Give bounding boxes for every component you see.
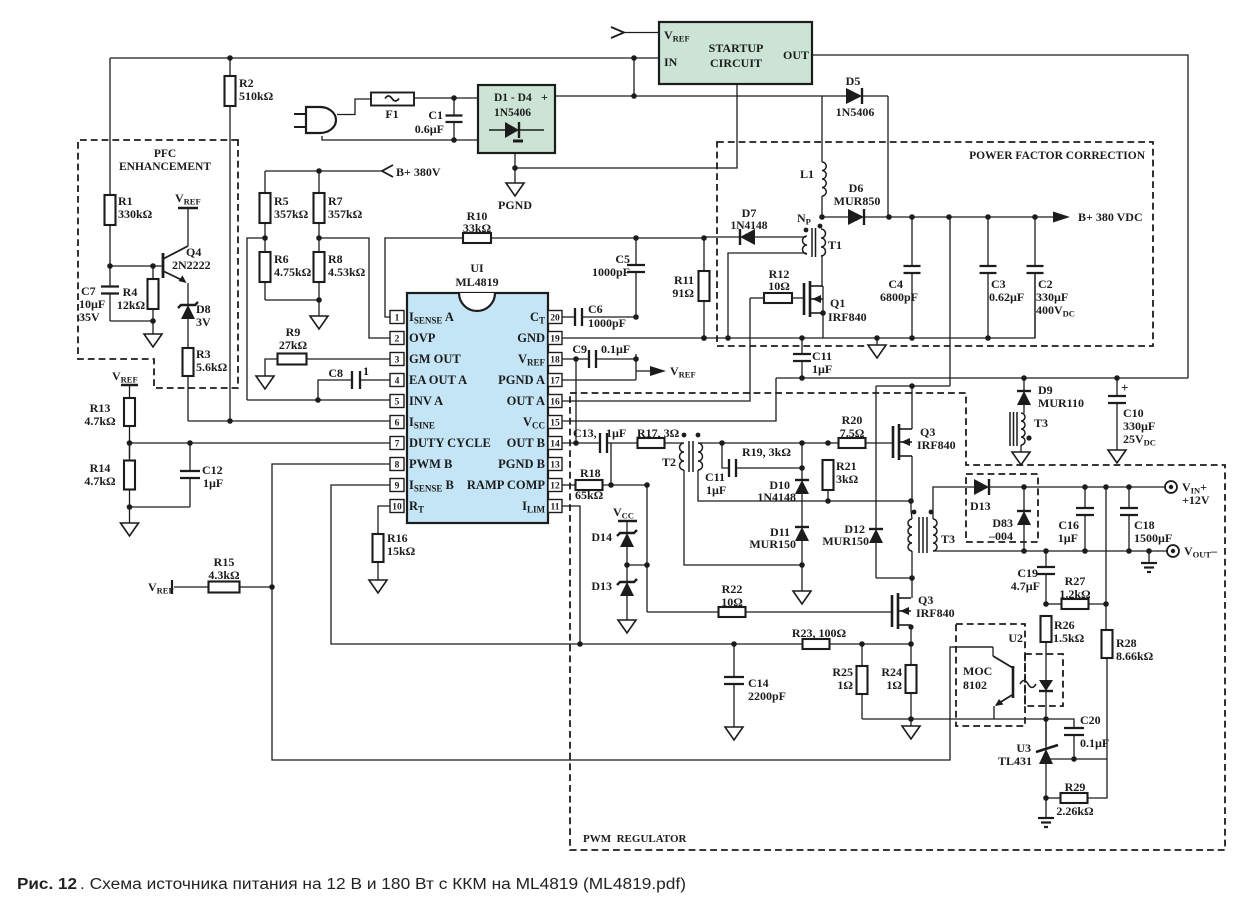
wire T1 primary return: [728, 253, 806, 338]
svg-text:1µF: 1µF: [606, 426, 626, 440]
resistor R22: [647, 582, 892, 617]
resistor R28: [1102, 630, 1154, 759]
svg-text:5.6kΩ: 5.6kΩ: [196, 360, 228, 374]
svg-text:PGND: PGND: [498, 198, 532, 212]
svg-text:R29: R29: [1065, 780, 1086, 794]
svg-text:TL431: TL431: [998, 754, 1032, 768]
clamp rail to Q3 drain: [876, 217, 950, 425]
svg-text:MOC: MOC: [963, 664, 992, 678]
svg-text:B+ 380 VDC: B+ 380 VDC: [1078, 210, 1143, 224]
diode D11: [749, 525, 809, 591]
svg-text:330kΩ: 330kΩ: [118, 207, 153, 221]
resistor R7: [314, 171, 363, 252]
svg-text:GND: GND: [517, 331, 545, 345]
svg-text:10µF: 10µF: [79, 297, 105, 311]
svg-text:OUT B: OUT B: [507, 436, 545, 450]
svg-text:POWER FACTOR CORRECTION: POWER FACTOR CORRECTION: [969, 150, 1146, 162]
svg-text:2N2222: 2N2222: [172, 258, 211, 272]
svg-text:R23, 100Ω: R23, 100Ω: [792, 626, 847, 640]
svg-text:PGND B: PGND B: [498, 457, 545, 471]
ground under R14: [121, 507, 191, 536]
diode D83-004: [988, 487, 1031, 554]
svg-text:R24: R24: [881, 665, 902, 679]
svg-text:PWM B: PWM B: [409, 457, 452, 471]
transformer T1: [797, 211, 842, 257]
svg-text:–004: –004: [988, 529, 1013, 543]
svg-text:10: 10: [392, 503, 402, 513]
capacitor C13: [562, 426, 638, 453]
wire PWM B pin8 long loop: [269, 464, 993, 760]
svg-text:C2: C2: [1038, 277, 1053, 291]
svg-text:1Ω: 1Ω: [886, 678, 902, 692]
resistor R27: [1046, 574, 1109, 609]
svg-text:1: 1: [395, 314, 400, 324]
svg-text:D14: D14: [591, 530, 612, 544]
transformer T3 main: [908, 501, 955, 581]
svg-text:1µF: 1µF: [1058, 531, 1078, 545]
transistor Q4 2N2222: [163, 209, 211, 305]
svg-text:RAMP COMP: RAMP COMP: [467, 478, 545, 492]
ground under C10: [1108, 450, 1126, 463]
svg-text:Q1: Q1: [830, 296, 845, 310]
capacitor C9 on VREF: [562, 342, 639, 368]
resistor R11: [672, 238, 709, 341]
svg-text:1000pF: 1000pF: [588, 316, 626, 330]
svg-text:Q4: Q4: [186, 245, 201, 259]
wire ISENSE B pin9 rail: [331, 485, 914, 647]
svg-text:IRF840: IRF840: [916, 606, 955, 620]
GND rail pin19: [562, 273, 1035, 341]
wire plug to fuse: [337, 99, 371, 115]
svg-text:R25: R25: [832, 665, 853, 679]
svg-text:C9: C9: [572, 342, 587, 356]
ground PFC stage: [868, 338, 886, 358]
svg-text:14: 14: [550, 440, 560, 450]
capacitor C18: [1120, 487, 1172, 551]
wire top rail to startup IN: [110, 55, 659, 61]
capacitor C6 on CT: [562, 302, 636, 330]
svg-text:R4: R4: [123, 285, 138, 299]
wire source return to opto: [862, 716, 1049, 722]
resistor R20: [839, 413, 894, 448]
svg-text:C6: C6: [588, 302, 603, 316]
svg-text:PFC: PFC: [154, 148, 176, 160]
svg-text:R17, 3Ω: R17, 3Ω: [637, 426, 680, 440]
transistor Q1: [804, 255, 867, 338]
optocoupler U2 internals: [952, 647, 1053, 719]
capacitor C11 pwm: [705, 443, 805, 497]
ground under T3 aux: [1012, 452, 1030, 465]
resistor R16: [373, 506, 416, 580]
svg-text:10Ω: 10Ω: [768, 279, 790, 293]
svg-text:C11: C11: [812, 349, 832, 363]
svg-text:1N4148: 1N4148: [730, 220, 767, 232]
svg-text:R13: R13: [90, 401, 111, 415]
svg-text:C11: C11: [705, 470, 725, 484]
svg-text:R26: R26: [1054, 618, 1075, 632]
resistor R4: [110, 263, 163, 324]
capacitor C10: [1108, 378, 1156, 450]
svg-text:27kΩ: 27kΩ: [279, 338, 308, 352]
PWM REGULATOR dashed box: [570, 393, 1225, 850]
svg-text:R22: R22: [722, 582, 743, 596]
svg-text:4.53kΩ: 4.53kΩ: [328, 265, 366, 279]
svg-text:T2: T2: [662, 455, 676, 469]
svg-text:D1 - D4: D1 - D4: [494, 92, 532, 104]
svg-text:ENHANCEMENT: ENHANCEMENT: [119, 161, 211, 173]
inductor L1: [800, 96, 826, 217]
resistor R21: [823, 459, 859, 501]
resistor R5: [260, 171, 309, 252]
svg-text:L1: L1: [800, 167, 814, 181]
svg-text:R19, 3kΩ: R19, 3kΩ: [742, 445, 791, 459]
svg-text:IN: IN: [664, 55, 678, 69]
capacitor C4: [880, 217, 921, 338]
caption: [17, 876, 686, 893]
wire IN-rail drop to plus line: [633, 58, 635, 96]
svg-text:. Схема источника питания на 1: . Схема источника питания на 12 В и 180 …: [80, 876, 686, 893]
wire R18 to OUT B: [610, 443, 612, 485]
AC plug symbol: [294, 107, 336, 133]
svg-text:4.7kΩ: 4.7kΩ: [84, 474, 116, 488]
diode D5: [836, 74, 888, 217]
svg-text:D9: D9: [1038, 383, 1053, 397]
POWER FACTOR CORRECTION dashed box: [717, 142, 1153, 346]
svg-text:D83: D83: [992, 516, 1013, 530]
VREF input arrow: [611, 27, 659, 38]
svg-text:R14: R14: [90, 461, 111, 475]
capacitor C7: [79, 263, 153, 324]
svg-text:R8: R8: [328, 252, 343, 266]
VREF output arrow: [562, 354, 696, 380]
svg-text:U2: U2: [1008, 631, 1023, 645]
resistor R12: [750, 267, 804, 303]
svg-text:OVP: OVP: [409, 331, 436, 345]
capacitor C11 pfc: [793, 338, 832, 378]
svg-text:U3: U3: [1016, 741, 1031, 755]
startup circuit U5 box: [659, 22, 812, 84]
svg-text:Q3: Q3: [920, 425, 935, 439]
ground under R24: [902, 719, 920, 739]
svg-text:C3: C3: [991, 277, 1006, 291]
svg-text:R15: R15: [214, 555, 235, 569]
svg-text:C10: C10: [1123, 406, 1144, 420]
terminal VIN+: [1165, 480, 1210, 507]
svg-text:8: 8: [395, 461, 400, 471]
svg-text:4.7µF: 4.7µF: [1011, 579, 1040, 593]
svg-text:R7: R7: [328, 194, 343, 208]
svg-text:R21: R21: [836, 459, 857, 473]
svg-text:MUR110: MUR110: [1038, 396, 1084, 410]
diode D13 output: [933, 479, 1166, 519]
resistor R8: [314, 235, 366, 316]
zener diode D8: [178, 302, 211, 348]
svg-text:1Ω: 1Ω: [837, 678, 853, 692]
svg-text:Q3: Q3: [918, 593, 933, 607]
svg-text:0.1µF: 0.1µF: [1080, 736, 1109, 750]
feedback wire from VIN: [1105, 487, 1107, 630]
resistor R24: [881, 644, 916, 722]
wire fuse to bridge: [414, 95, 478, 101]
svg-text:35V: 35V: [79, 310, 100, 324]
svg-text:6: 6: [395, 419, 400, 429]
svg-text:R2: R2: [239, 76, 254, 90]
svg-text:C16: C16: [1058, 518, 1079, 532]
svg-text:357kΩ: 357kΩ: [328, 207, 363, 221]
svg-text:0.6µF: 0.6µF: [415, 122, 444, 136]
svg-text:R27: R27: [1065, 574, 1086, 588]
svg-text:510kΩ: 510kΩ: [239, 89, 274, 103]
svg-text:MUR150: MUR150: [822, 534, 869, 548]
resistor R23: [792, 626, 847, 649]
svg-text:13: 13: [550, 461, 560, 471]
svg-text:330µF: 330µF: [1123, 419, 1155, 433]
capacitor C2: [1027, 217, 1075, 338]
capacitor C12: [180, 443, 223, 507]
svg-text:+12V: +12V: [1182, 493, 1210, 507]
svg-text:Рис. 12: Рис. 12: [17, 876, 77, 893]
wire T2 out to gate chain: [698, 440, 838, 446]
D13/D83 dashed box: [966, 474, 1038, 542]
transformer T2: [662, 433, 703, 472]
svg-text:D13: D13: [591, 579, 612, 593]
svg-text:1N5406: 1N5406: [836, 105, 875, 119]
svg-text:1µF: 1µF: [706, 483, 726, 497]
svg-text:6800pF: 6800pF: [880, 290, 918, 304]
VOUT rail: [933, 548, 1168, 554]
svg-text:2.26kΩ: 2.26kΩ: [1056, 804, 1094, 818]
svg-text:IRF840: IRF840: [917, 438, 956, 452]
capacitor C20: [1046, 713, 1109, 762]
svg-text:D13: D13: [970, 499, 991, 513]
svg-text:1500µF: 1500µF: [1134, 531, 1172, 545]
capacitor C14: [724, 644, 786, 727]
wire R6 R8 to ground: [247, 238, 390, 400]
fuse F1: [371, 93, 414, 122]
B+ 380V tap arrow: [265, 165, 441, 179]
terminal VOUT-: [1167, 544, 1218, 560]
svg-text:R5: R5: [274, 194, 289, 208]
wire DUTY CYCLE pin7: [130, 440, 391, 446]
VREF supply at Q4: [175, 191, 201, 208]
svg-text:9: 9: [395, 482, 400, 492]
svg-text:C4: C4: [888, 277, 903, 291]
svg-text:1µF: 1µF: [812, 362, 832, 376]
transistor Q3 upper: [893, 424, 956, 502]
ground under D11: [793, 591, 811, 604]
earth ground output: [1141, 551, 1157, 572]
capacitor C1: [415, 98, 463, 140]
svg-text:C14: C14: [748, 676, 769, 690]
VREF tick R13: [112, 369, 138, 398]
svg-text:R28: R28: [1116, 636, 1137, 650]
svg-text:1N5406: 1N5406: [494, 107, 531, 119]
svg-text:20: 20: [550, 314, 560, 324]
svg-text:T1: T1: [828, 238, 842, 252]
transistor Q3 lower: [892, 578, 955, 644]
svg-text:1N4148: 1N4148: [757, 490, 796, 504]
svg-text:D8: D8: [196, 302, 211, 316]
resistor R18: [575, 466, 650, 502]
svg-text:C5: C5: [615, 252, 630, 266]
svg-text:R18: R18: [580, 466, 601, 480]
op-amp U1 ML4819 body: [390, 261, 562, 523]
svg-text:PWM REGULATOR: PWM REGULATOR: [583, 833, 688, 845]
svg-text:R20: R20: [842, 413, 863, 427]
svg-text:0.1µF: 0.1µF: [601, 342, 630, 356]
svg-text:4.75kΩ: 4.75kΩ: [274, 265, 312, 279]
svg-text:1.2kΩ: 1.2kΩ: [1059, 587, 1091, 601]
svg-text:DUTY CYCLE: DUTY CYCLE: [409, 436, 491, 450]
wire ISINE pin6: [188, 418, 390, 424]
svg-text:3kΩ: 3kΩ: [836, 472, 859, 486]
svg-text:2: 2: [395, 335, 400, 345]
svg-text:C8: C8: [328, 366, 343, 380]
svg-text:7.5Ω: 7.5Ω: [840, 426, 865, 440]
svg-text:D6: D6: [849, 181, 864, 195]
resistor R17: [637, 426, 684, 448]
svg-text:R6: R6: [274, 252, 289, 266]
ground under D13: [618, 620, 636, 633]
svg-text:C7: C7: [81, 284, 96, 298]
svg-text:ML4819: ML4819: [455, 275, 498, 289]
ground under C14: [725, 727, 743, 740]
capacitor C19: [1011, 551, 1055, 607]
svg-text:C18: C18: [1134, 518, 1155, 532]
svg-text:F1: F1: [385, 107, 398, 121]
bridge rectifier D1-D4 box: [478, 85, 555, 153]
wire startup bottom to PGND rail: [515, 84, 737, 168]
svg-text:17: 17: [550, 377, 560, 387]
svg-text:7: 7: [395, 440, 400, 450]
svg-text:4.7kΩ: 4.7kΩ: [84, 414, 116, 428]
svg-text:UI: UI: [470, 261, 484, 275]
svg-text:1000pF: 1000pF: [592, 265, 630, 279]
svg-text:18: 18: [550, 356, 560, 366]
svg-text:R11: R11: [674, 273, 694, 287]
svg-text:10Ω: 10Ω: [721, 595, 743, 609]
capacitor C3: [980, 217, 1025, 338]
resistor R3: [183, 347, 228, 421]
svg-text:R9: R9: [286, 325, 301, 339]
svg-text:65kΩ: 65kΩ: [575, 488, 604, 502]
svg-text:1µF: 1µF: [203, 476, 223, 490]
svg-text:STARTUP: STARTUP: [709, 41, 764, 55]
svg-text:4.3kΩ: 4.3kΩ: [208, 568, 240, 582]
VCC tick: [613, 505, 637, 533]
svg-text:GM OUT: GM OUT: [409, 352, 461, 366]
svg-text:1.5kΩ: 1.5kΩ: [1053, 631, 1085, 645]
svg-text:16: 16: [550, 398, 560, 408]
svg-text:C19: C19: [1017, 566, 1038, 580]
svg-text:33kΩ: 33kΩ: [463, 221, 492, 235]
wire INV A pin5: [247, 397, 390, 403]
svg-text:C20: C20: [1080, 713, 1101, 727]
svg-text:3V: 3V: [196, 315, 211, 329]
svg-text:EA OUT A: EA OUT A: [409, 373, 467, 387]
earth ground U3: [1038, 798, 1054, 827]
svg-text:IRF840: IRF840: [828, 310, 867, 324]
svg-text:MUR150: MUR150: [749, 537, 796, 551]
svg-text:8102: 8102: [963, 678, 987, 692]
svg-text:D5: D5: [846, 74, 861, 88]
ground under R16: [369, 580, 387, 593]
resistor R10: [385, 209, 707, 317]
resistor R25: [832, 644, 867, 719]
svg-text:0.62µF: 0.62µF: [989, 290, 1024, 304]
wire OUT A pin16 to R12: [562, 298, 750, 401]
svg-text:+: +: [1121, 380, 1128, 395]
wire plug bottom to bridge: [322, 136, 478, 143]
svg-text:1: 1: [363, 364, 369, 378]
svg-text:4: 4: [395, 377, 400, 387]
resistor R9: [256, 325, 390, 389]
svg-text:MUR850: MUR850: [834, 194, 881, 208]
svg-text:3: 3: [395, 356, 400, 366]
resistor R26: [1041, 616, 1085, 680]
wire ILIM pin11: [562, 506, 583, 647]
svg-text:330µF: 330µF: [1036, 290, 1068, 304]
optocoupler U2 dashed box: [956, 624, 1063, 726]
svg-text:15kΩ: 15kΩ: [387, 544, 416, 558]
diode D12: [822, 386, 912, 578]
resistor R6: [260, 235, 312, 300]
svg-text:PGND A: PGND A: [498, 373, 545, 387]
svg-text:D7: D7: [742, 206, 757, 220]
wire pin18 to OUT B line: [575, 359, 577, 443]
resistor R29: [1046, 759, 1107, 818]
svg-text:R16: R16: [387, 531, 408, 545]
ground under R4: [144, 321, 162, 347]
resistor R2: [225, 58, 274, 421]
svg-text:15: 15: [550, 419, 560, 429]
resistor R14: [84, 443, 135, 510]
svg-text:R3: R3: [196, 347, 211, 361]
wire bridge plus output: [555, 93, 846, 99]
zener D14: [591, 530, 647, 582]
svg-text:C12: C12: [202, 463, 223, 477]
shunt regulator U3 TL431: [998, 719, 1107, 801]
svg-text:CIRCUIT: CIRCUIT: [710, 56, 762, 70]
svg-text:T3: T3: [1034, 416, 1048, 430]
diode D10: [757, 443, 809, 527]
transformer T3 aux winding: [1010, 412, 1048, 452]
svg-text:19: 19: [550, 335, 560, 345]
diode D9: [1017, 378, 1084, 413]
wire T2 return to primary: [684, 470, 914, 565]
B+ 380 VDC arrow: [1053, 210, 1143, 224]
svg-text:B+ 380V: B+ 380V: [396, 165, 441, 179]
svg-text:8.66kΩ: 8.66kΩ: [1116, 649, 1154, 663]
svg-text:C1: C1: [428, 108, 443, 122]
wire VCC pin15: [562, 378, 776, 421]
B+ rail with diode D6: [819, 181, 1053, 225]
svg-text:+: +: [541, 90, 548, 104]
capacitor C8: [318, 364, 390, 400]
wire LED to U3: [1045, 691, 1047, 746]
ground PGND: [498, 153, 532, 212]
resistor R1: [105, 58, 153, 266]
PFC ENHANCEMENT dashed box: [78, 140, 238, 388]
svg-text:OUT: OUT: [783, 48, 809, 62]
capacitor C5: [592, 238, 645, 320]
svg-text:C13,: C13,: [573, 426, 597, 440]
svg-text:R1: R1: [118, 194, 133, 208]
wire RAMP COMP R18: [562, 484, 576, 486]
svg-text:5: 5: [395, 398, 400, 408]
svg-text:357kΩ: 357kΩ: [274, 207, 309, 221]
resistor R13: [84, 398, 135, 458]
